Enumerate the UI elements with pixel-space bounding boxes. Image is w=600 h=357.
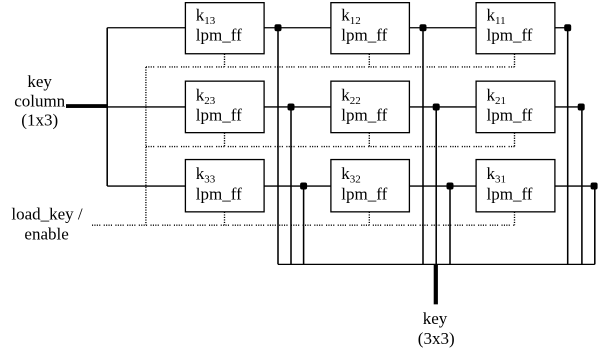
node k32 output junction — [447, 183, 454, 190]
wire k11 output — [555, 27, 568, 29]
svg-text:lpm_ff: lpm_ff — [341, 105, 387, 124]
wire key column thick stub — [66, 104, 107, 108]
wire k12 to k11 — [409, 27, 476, 29]
wire k32 to k31 — [409, 185, 476, 187]
wire k21 output drop — [581, 107, 583, 264]
wire key column vertical bus — [106, 28, 108, 186]
svg-text:key: key — [27, 72, 52, 91]
svg-text:column: column — [14, 92, 65, 111]
wire k31 output — [555, 185, 595, 187]
wire k13 enable stub — [224, 54, 226, 67]
flip-flop K22 box — [331, 81, 410, 133]
wire row3 input to k33 — [107, 185, 185, 187]
node k21 output junction — [578, 103, 585, 110]
svg-text:lpm_ff: lpm_ff — [341, 26, 387, 45]
wire row1 input to k13 — [107, 27, 185, 29]
wire k31 output drop — [594, 186, 596, 264]
wire k22 output drop — [435, 107, 437, 264]
svg-text:key: key — [423, 309, 448, 328]
flip-flop K13 box — [185, 3, 264, 54]
svg-text:lpm_ff: lpm_ff — [341, 184, 387, 203]
wire enable dotted row3 horizontal — [92, 224, 515, 226]
wire row2 input to k23 — [107, 106, 185, 108]
node k12 output junction — [420, 24, 427, 31]
wire k31 enable stub — [514, 212, 516, 225]
node k22 output junction — [433, 103, 440, 110]
wire enable dotted row2 horizontal — [146, 146, 515, 148]
wire k33 to k32 — [264, 185, 331, 187]
wire k13 output drop — [277, 28, 279, 265]
flip-flop K21 box — [476, 81, 555, 133]
svg-text:enable: enable — [24, 225, 68, 244]
wire enable dotted trunk vertical — [145, 67, 147, 225]
flip-flop K32 box — [331, 160, 410, 212]
svg-text:load_key /: load_key / — [11, 204, 83, 223]
svg-text:lpm_ff: lpm_ff — [196, 105, 242, 124]
wire k13 to k12 — [264, 27, 331, 29]
flip-flop K33 box — [185, 160, 264, 212]
svg-text:lpm_ff: lpm_ff — [487, 26, 533, 45]
wire k11 output drop — [567, 28, 569, 265]
wire k33 enable stub — [224, 212, 226, 225]
wire k32 enable stub — [368, 212, 370, 225]
node k11 output junction — [564, 24, 571, 31]
svg-text:(3x3): (3x3) — [418, 329, 455, 348]
wire k21 enable stub — [514, 133, 516, 147]
wire k32 output drop — [449, 186, 451, 264]
svg-text:lpm_ff: lpm_ff — [196, 26, 242, 45]
wire k22 enable stub — [368, 133, 370, 147]
wire key output bus — [278, 263, 595, 265]
node k33 output junction — [300, 183, 307, 190]
svg-text:lpm_ff: lpm_ff — [196, 184, 242, 203]
flip-flop K23 box — [185, 81, 264, 133]
wire k12 enable stub — [368, 54, 370, 67]
wire enable dotted row1 horizontal — [146, 66, 515, 68]
node k13 output junction — [275, 24, 282, 31]
wire key 3x3 thick stub — [434, 264, 438, 304]
svg-text:lpm_ff: lpm_ff — [487, 105, 533, 124]
wire k33 output drop — [303, 186, 305, 264]
node k31 output junction — [591, 183, 598, 190]
wire k22 to k21 — [409, 106, 476, 108]
flip-flop K31 box — [476, 160, 555, 212]
svg-text:(1x3): (1x3) — [21, 111, 58, 130]
svg-text:lpm_ff: lpm_ff — [487, 184, 533, 203]
wire k21 output — [555, 106, 582, 108]
wire k23 enable stub — [224, 133, 226, 147]
flip-flop K12 box — [331, 3, 410, 54]
wire k23 to k22 — [264, 106, 331, 108]
wire k12 output drop — [422, 28, 424, 265]
wire k23 output drop — [290, 107, 292, 264]
flip-flop K11 box — [476, 3, 555, 54]
wire k11 enable stub — [514, 54, 516, 67]
node k23 output junction — [288, 103, 295, 110]
